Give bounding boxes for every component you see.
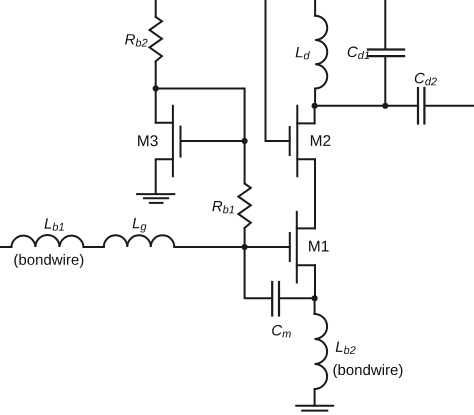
label M1 [309,241,329,252]
wire L_d bottom to node E [314,89,316,106]
label Cm [272,325,291,338]
label Cd2 [415,73,437,86]
wire C_m right plate to node D [280,297,315,299]
node E (M2 drain / L_d / output rail) [312,103,318,109]
ground (M3 source) [137,194,174,203]
inductor L_d [315,16,327,89]
wire node C down and to C_m left plate [245,247,272,298]
wire C_d1 bottom plate to node F [384,56,386,106]
wire M2 gate bias from top edge [266,0,290,141]
inductor L_g [104,235,175,247]
label M2 [311,135,331,146]
label Lb2 [336,342,356,354]
label Lb1 [45,218,64,230]
inductor L_b1 [11,235,83,247]
wire C_d2 to right edge (output) [425,105,474,107]
wire M1 drain up to M2 source [314,159,316,228]
wire M1 gate lead [245,246,290,248]
wire node B to R_b1 top [244,141,246,184]
label bondwire right [333,364,402,378]
wire R_b1 bottom to node C [244,228,246,247]
node B (M3 gate / R_b1 / bias wire) [242,138,248,144]
ground (L_b2) [296,406,333,411]
wire input left edge [0,246,11,248]
wire M3 gate lead [181,140,245,142]
node F (C_d1 / output rail) [382,103,388,109]
label Lg [133,218,147,233]
wire M1 source down to node D [314,265,316,298]
capacitor C_m [272,282,279,316]
transistor M3 [156,106,181,194]
node C (gate of M1 / R_b1 / C_m branch) [242,244,248,250]
wire R_b2 bottom to M3 drain [155,61,157,122]
wire L_g to node C [174,246,244,248]
wire between L_b1 and L_g [84,246,104,248]
transistor M2 [290,106,315,177]
node D (M1 source / C_m / L_b2) [312,295,318,301]
capacitor C_d1 [368,50,404,57]
wire M2 drain up to node E [314,106,316,124]
capacitor C_d2 [418,88,424,124]
label Cd1 [348,47,369,60]
label Rb1 [212,201,234,213]
wire supply to C_d1 top plate [384,0,386,49]
wire supply to L_d top [314,0,316,16]
label bondwire left [14,254,83,268]
resistor R_b1 [238,184,250,229]
inductor L_b2 [315,314,327,389]
wire L_b2 bottom to ground [314,389,316,406]
node A (R_b2 / M3 drain / bias wire) [153,85,159,91]
wire supply to R_b2 top [155,0,157,17]
label Rb2 [125,34,147,46]
wire output rail node E to C_d2 [315,105,417,107]
label M3 [138,135,158,146]
resistor R_b2 [150,17,162,62]
transistor M1 [290,212,315,283]
wire node D to L_b2 top [314,298,316,314]
label Ld [296,47,310,59]
wire bias: node A right then down to gate node [156,89,245,142]
